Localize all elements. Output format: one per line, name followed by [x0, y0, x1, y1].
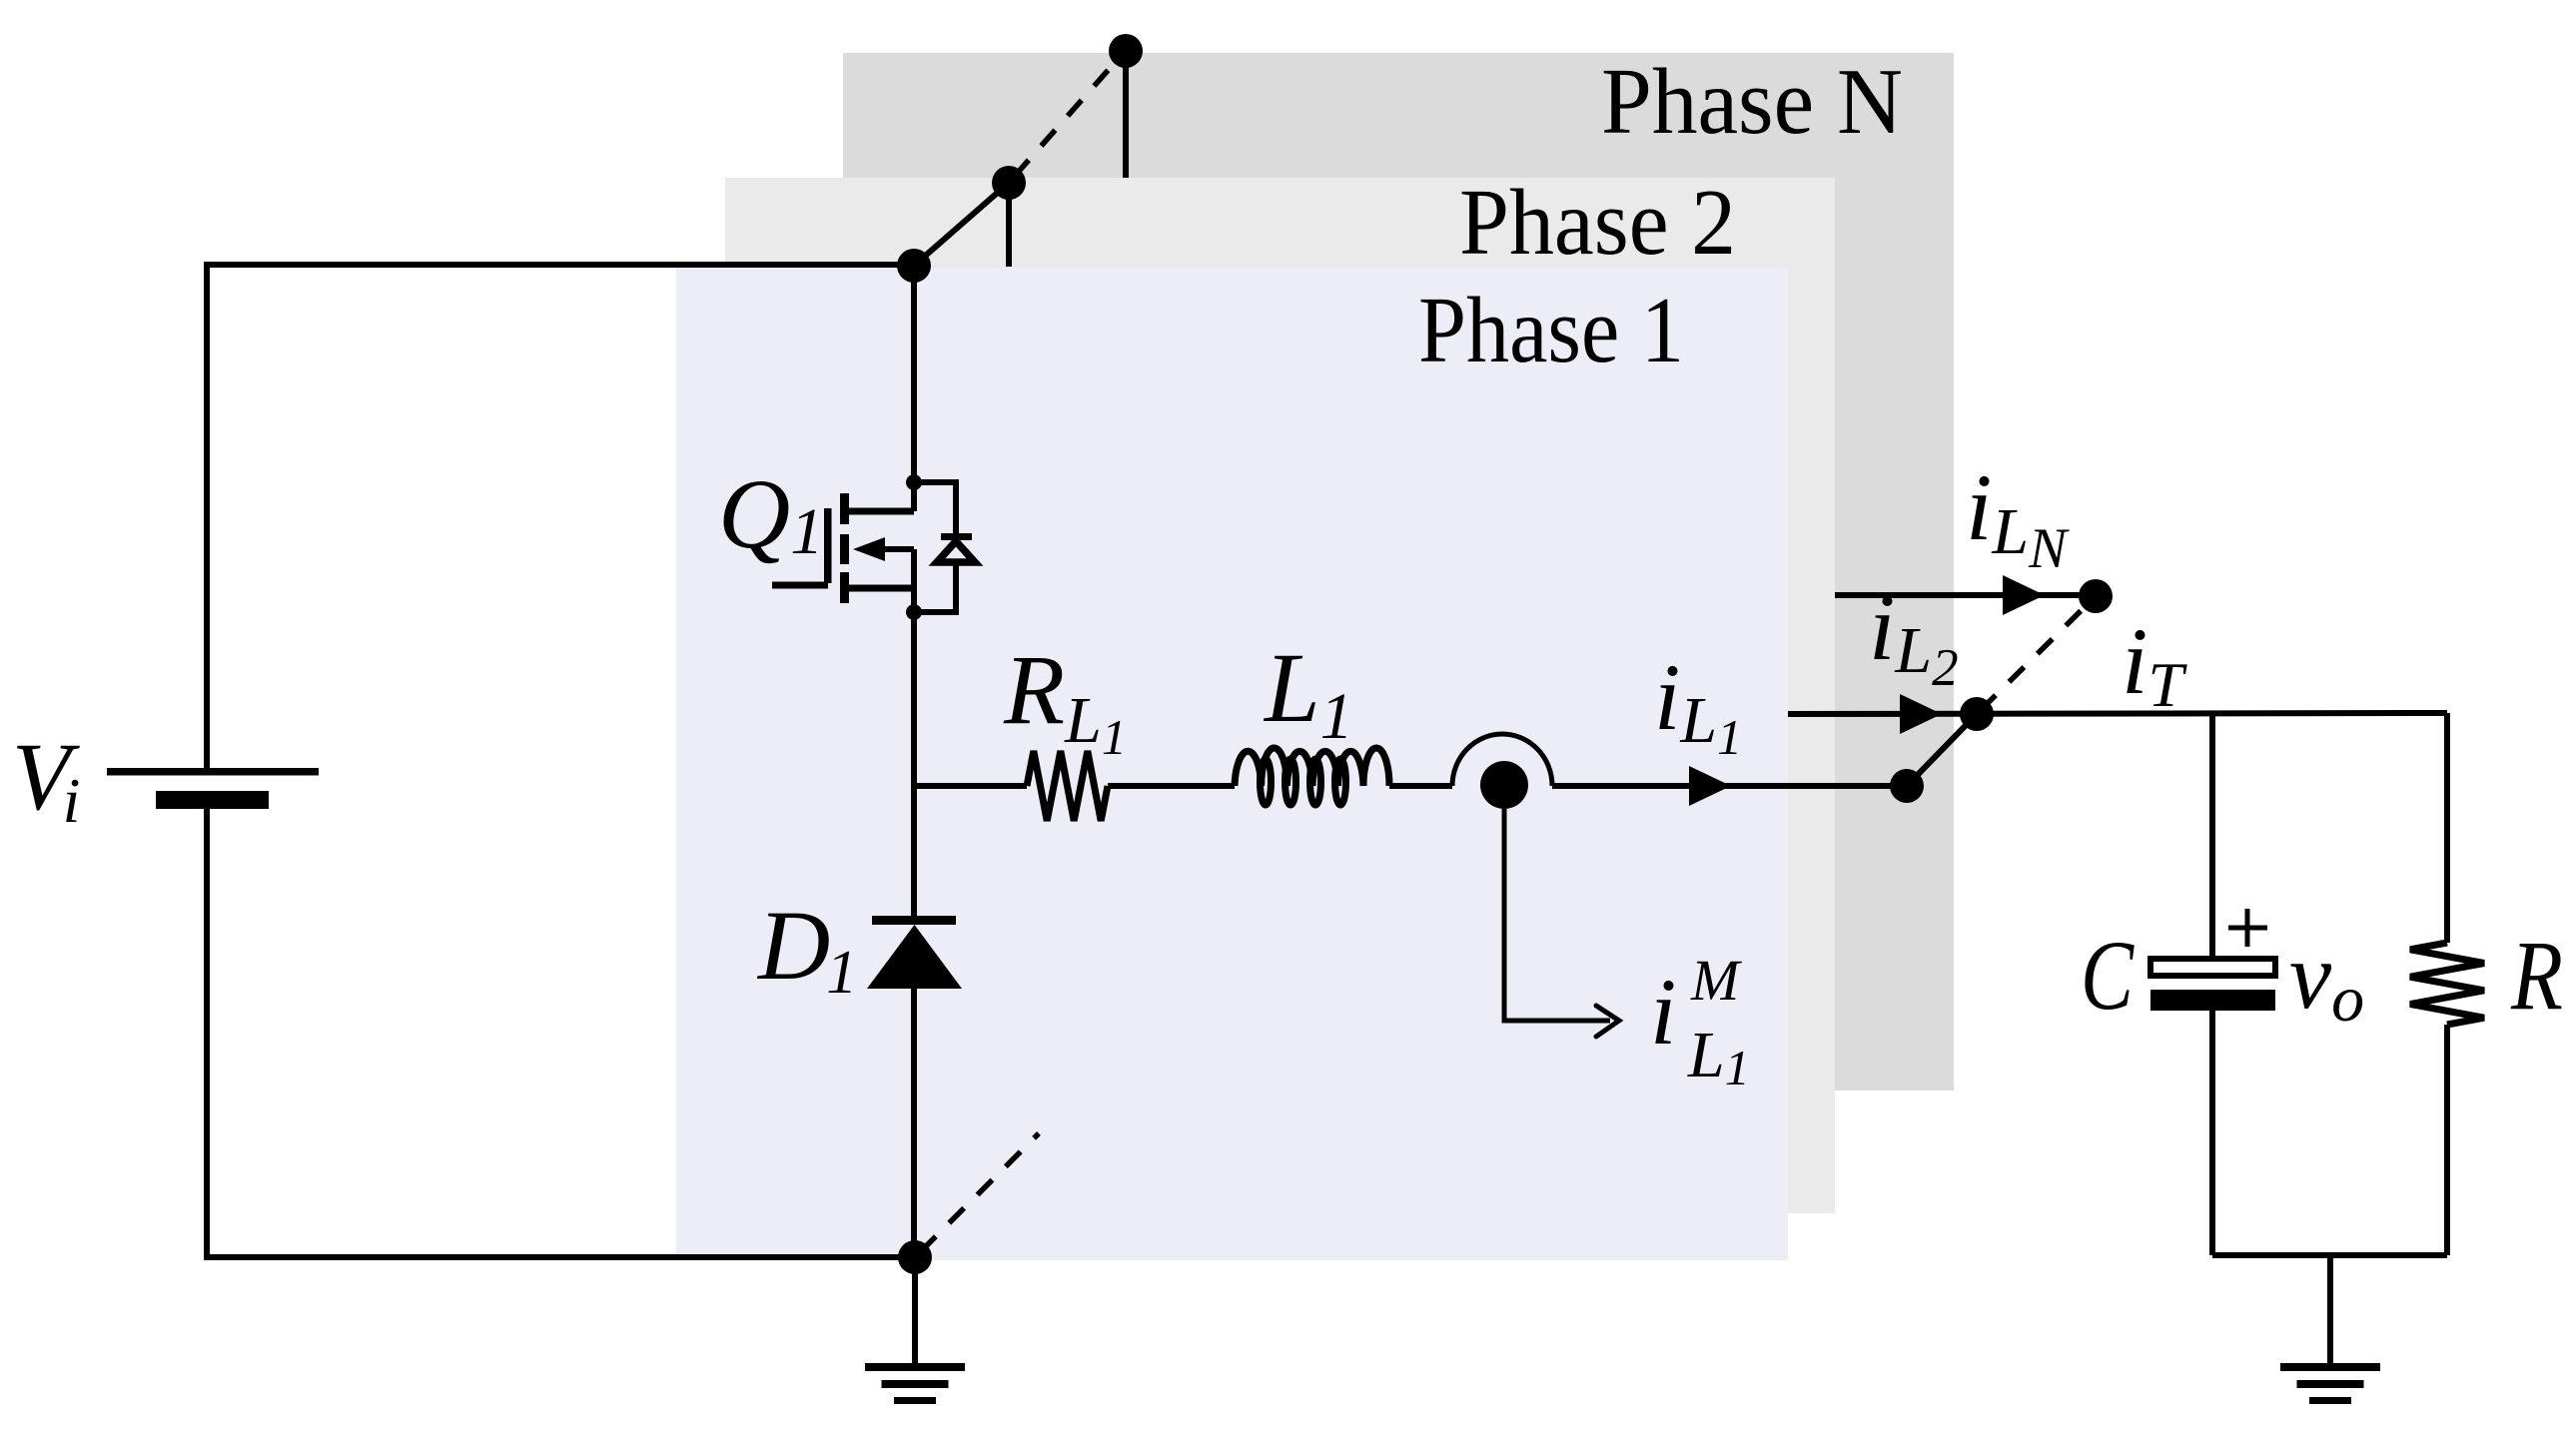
svg-text:C: C	[2081, 920, 2135, 1031]
svg-text:Phase 1: Phase 1	[1418, 279, 1684, 382]
svg-text:Phase N: Phase N	[1601, 50, 1903, 154]
svg-text:Phase 2: Phase 2	[1459, 171, 1736, 275]
svg-text:i: i	[1650, 959, 1676, 1065]
svg-text:R: R	[2510, 920, 2563, 1031]
svg-text:Vi: Vi	[12, 723, 80, 836]
svg-text:M: M	[1690, 948, 1742, 1013]
